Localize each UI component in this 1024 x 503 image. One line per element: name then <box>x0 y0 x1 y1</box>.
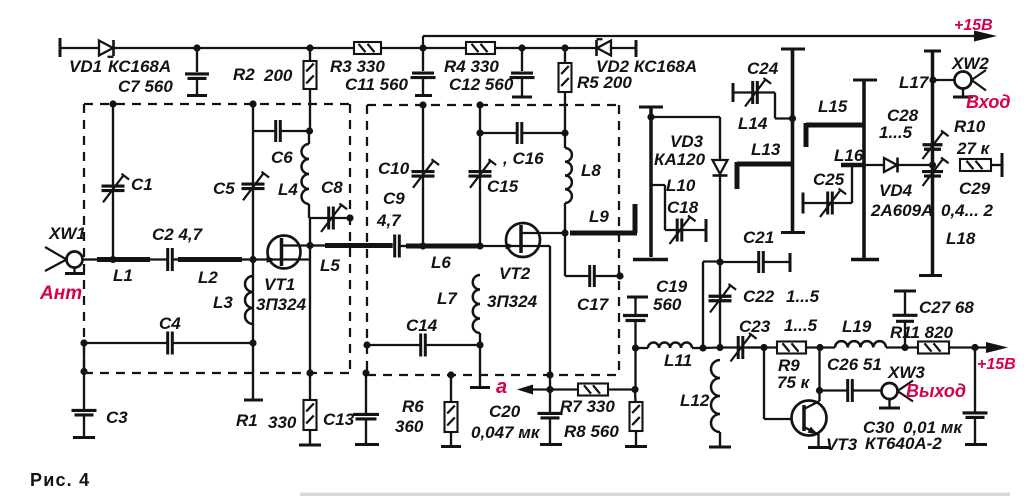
svg-text:R5 200: R5 200 <box>577 73 632 92</box>
svg-text:L12: L12 <box>680 391 710 410</box>
svg-text:2А609А: 2А609А <box>870 201 933 220</box>
svg-text:L5: L5 <box>320 256 340 275</box>
svg-text:L7: L7 <box>437 289 458 308</box>
svg-text:, C16: , C16 <box>502 149 544 168</box>
svg-text:1...5: 1...5 <box>879 123 913 142</box>
svg-text:C6: C6 <box>271 148 293 167</box>
svg-text:XW1: XW1 <box>48 224 86 243</box>
svg-text:1...5: 1...5 <box>784 316 818 335</box>
svg-text:C22: C22 <box>743 287 775 306</box>
svg-text:C27 68: C27 68 <box>919 298 974 317</box>
svg-text:+15В: +15В <box>954 17 993 34</box>
svg-text:Выход: Выход <box>906 381 966 401</box>
svg-text:R2: R2 <box>233 65 255 84</box>
svg-text:L11: L11 <box>664 351 692 370</box>
svg-text:C10: C10 <box>378 159 410 178</box>
svg-text:C23: C23 <box>739 317 771 336</box>
svg-text:C7 560: C7 560 <box>118 77 173 96</box>
svg-text:C29: C29 <box>959 179 991 198</box>
svg-text:L6: L6 <box>431 253 451 272</box>
svg-text:R3 330: R3 330 <box>330 57 385 76</box>
svg-text:L18: L18 <box>946 229 976 248</box>
svg-text:C20: C20 <box>489 402 521 421</box>
svg-text:3П324: 3П324 <box>487 292 538 311</box>
svg-text:C18: C18 <box>667 198 699 217</box>
svg-text:27 к: 27 к <box>956 139 991 158</box>
svg-text:C9: C9 <box>383 189 405 208</box>
svg-text:560: 560 <box>653 295 682 314</box>
svg-text:R11 820: R11 820 <box>890 323 954 342</box>
svg-text:L2: L2 <box>198 268 218 287</box>
svg-text:C14: C14 <box>406 316 438 335</box>
svg-text:C11 560: C11 560 <box>345 75 409 94</box>
svg-text:Ант: Ант <box>39 283 82 304</box>
svg-text:L3: L3 <box>213 293 233 312</box>
svg-text:200: 200 <box>263 66 293 85</box>
svg-text:330: 330 <box>268 413 297 432</box>
svg-text:C1: C1 <box>131 175 153 194</box>
svg-text:C17: C17 <box>577 295 610 314</box>
svg-text:C5: C5 <box>213 179 235 198</box>
svg-text:0,047 мк: 0,047 мк <box>471 423 541 442</box>
svg-text:Рис. 4: Рис. 4 <box>30 470 90 490</box>
svg-text:C15: C15 <box>487 177 519 196</box>
svg-text:L8: L8 <box>581 161 601 180</box>
svg-text:C19: C19 <box>656 277 688 296</box>
svg-text:R7 330: R7 330 <box>560 397 615 416</box>
svg-text:L4: L4 <box>278 180 298 199</box>
svg-text:L10: L10 <box>666 176 696 195</box>
svg-text:+15В: +15В <box>977 356 1016 373</box>
svg-text:R8 560: R8 560 <box>564 422 619 441</box>
svg-text:C12 560: C12 560 <box>449 75 514 94</box>
svg-text:C26 51: C26 51 <box>827 355 882 374</box>
svg-text:3П324: 3П324 <box>256 295 307 314</box>
svg-text:R1: R1 <box>236 411 258 430</box>
svg-text:L19: L19 <box>842 317 872 336</box>
svg-text:КС168А: КС168А <box>108 57 171 76</box>
svg-text:XW3: XW3 <box>887 363 925 382</box>
svg-text:0,4... 2: 0,4... 2 <box>941 201 994 220</box>
svg-text:C21: C21 <box>743 228 774 247</box>
svg-text:КТ640А-2: КТ640А-2 <box>865 434 942 453</box>
svg-text:L9: L9 <box>589 207 609 226</box>
svg-text:VD3: VD3 <box>670 132 704 151</box>
svg-text:R6: R6 <box>402 397 424 416</box>
svg-text:C25: C25 <box>813 170 845 189</box>
svg-text:L13: L13 <box>751 140 781 159</box>
svg-text:360: 360 <box>395 417 424 436</box>
svg-text:R10: R10 <box>954 117 986 136</box>
svg-text:КА120: КА120 <box>654 150 706 169</box>
svg-text:VD1: VD1 <box>69 57 102 76</box>
svg-text:C8: C8 <box>321 178 343 197</box>
svg-text:C24: C24 <box>747 59 779 78</box>
svg-text:Вход: Вход <box>966 92 1010 112</box>
svg-text:КС168А: КС168А <box>634 57 697 76</box>
svg-text:VD4: VD4 <box>879 181 913 200</box>
svg-text:L16: L16 <box>834 146 864 165</box>
svg-text:а: а <box>496 376 507 398</box>
svg-text:VT2: VT2 <box>499 264 531 283</box>
svg-text:1...5: 1...5 <box>786 287 820 306</box>
svg-text:L17: L17 <box>899 73 930 92</box>
svg-text:C3: C3 <box>106 408 128 427</box>
svg-text:L1: L1 <box>113 266 133 285</box>
svg-text:VT1: VT1 <box>264 275 295 294</box>
svg-text:R4 330: R4 330 <box>444 57 499 76</box>
svg-text:L15: L15 <box>818 97 848 116</box>
svg-text:L14: L14 <box>738 114 768 133</box>
svg-text:C13: C13 <box>323 410 355 429</box>
svg-text:C2 4,7: C2 4,7 <box>152 225 204 244</box>
svg-text:XW2: XW2 <box>951 54 989 73</box>
svg-text:C4: C4 <box>159 314 181 333</box>
svg-text:4,7: 4,7 <box>376 211 402 230</box>
svg-text:VT3: VT3 <box>826 435 858 454</box>
svg-text:75 к: 75 к <box>777 373 811 392</box>
